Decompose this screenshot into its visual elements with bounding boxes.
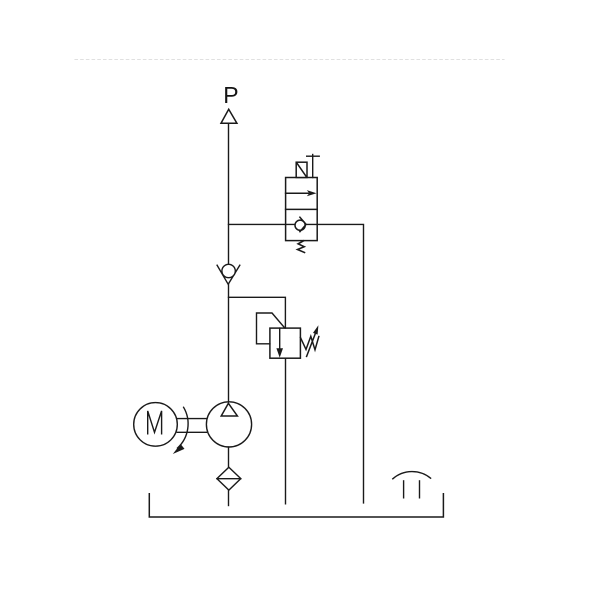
wire: RV1 outlet down to tank <box>285 358 287 504</box>
coupling between motor M1 and pump PU1 <box>177 419 206 433</box>
rotation direction arc arrow <box>173 407 188 454</box>
spring of valve V1 <box>298 241 305 253</box>
tank T1 <box>149 494 443 517</box>
wire: branch to relief valve RV1 <box>229 297 286 328</box>
pilot line of RV1 <box>257 313 285 344</box>
valve V1 body (2/2 cartridge valve) <box>286 178 318 241</box>
wire: filter F1 down into tank <box>228 490 230 505</box>
electrical pin of valve V1 <box>307 155 320 178</box>
port P triangle <box>221 109 237 123</box>
pump PU1 output triangle <box>221 403 237 416</box>
relief valve RV1 internal flow arrow <box>276 328 283 358</box>
motor M1 letter M <box>148 411 162 435</box>
filter F1 diamond <box>217 467 241 490</box>
electric motor M1 circle <box>134 403 178 447</box>
svg-text:P: P <box>223 82 238 108</box>
relief valve RV1 body <box>270 328 301 358</box>
wire: P port down to check valve CV1 <box>228 123 230 264</box>
node P label <box>223 82 238 108</box>
faint dotted separator line <box>75 59 504 61</box>
adjustable spring of RV1 <box>300 325 318 356</box>
solenoid coil of valve V1 <box>296 162 307 177</box>
pump PU1 circle <box>206 402 251 447</box>
check valve CV1 on main line <box>217 264 240 284</box>
valve V1 flow arrow (open position) <box>286 190 317 196</box>
wire: branch to valve V1 and return line down to tank <box>229 224 364 503</box>
valve V1 check poppet (circle on seat) <box>295 217 306 232</box>
wire: CV1 down to pump PU1 <box>228 284 230 402</box>
breather B1 on tank <box>393 472 431 498</box>
wire: pump PU1 suction down to filter F1 <box>228 447 230 467</box>
